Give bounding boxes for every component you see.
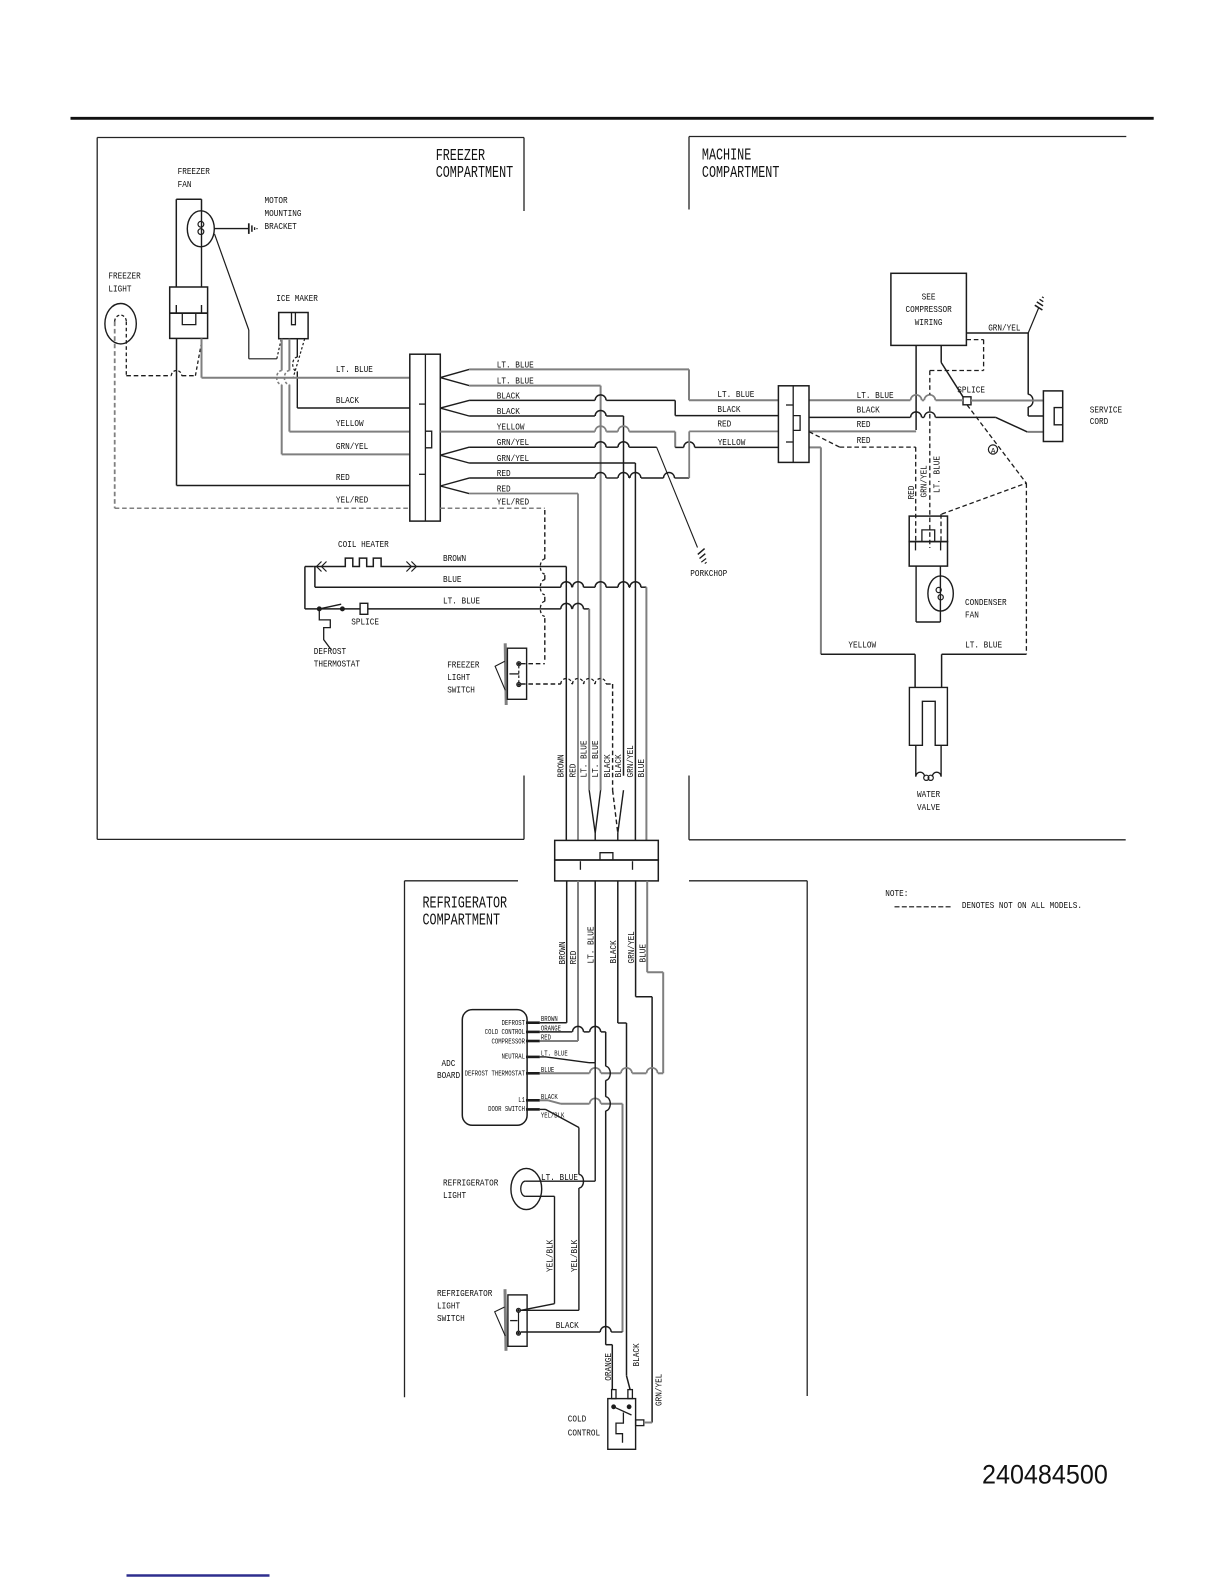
svg-text:YEL/BLK: YEL/BLK xyxy=(569,1239,580,1272)
wire LT. BLUE to water valve xyxy=(942,653,1027,655)
refrigerator light switch pin 2 xyxy=(517,1331,521,1335)
svg-text:LT. BLUE: LT. BLUE xyxy=(336,364,373,375)
svg-text:REFRIGERATOR: REFRIGERATOR xyxy=(443,1178,499,1189)
cold control body xyxy=(608,1399,636,1450)
refrigerator light switch flap xyxy=(495,1307,506,1336)
svg-text:COIL HEATER: COIL HEATER xyxy=(338,539,389,550)
wire to porkchop xyxy=(657,447,698,547)
ADC pin stub xyxy=(526,1056,540,1059)
machine compartment border bottom xyxy=(689,839,1126,841)
wire refrigerator light LT. BLUE xyxy=(526,1180,596,1182)
connector CN3 tick 2 xyxy=(632,861,634,870)
ORANGE hop over BLUE row xyxy=(606,1066,611,1080)
svg-text:THERMOSTAT: THERMOSTAT xyxy=(314,659,361,670)
wire ADC DEFROST brown xyxy=(540,1022,567,1024)
svg-text:DEFROST: DEFROST xyxy=(502,1020,526,1028)
condenser relay block lower xyxy=(909,542,947,567)
connector CN2 notch xyxy=(793,416,800,431)
svg-text:BLACK: BLACK xyxy=(857,404,880,415)
svg-text:COMPARTMENT: COMPARTMENT xyxy=(436,163,514,182)
freezer fan connector pin tick 1 xyxy=(175,305,177,313)
freezer compartment border right upper xyxy=(523,138,525,212)
motor mounting bracket ground symbol xyxy=(248,223,250,234)
svg-text:RED: RED xyxy=(717,419,731,430)
svg-text:BLACK: BLACK xyxy=(717,404,740,415)
ice maker pin 2 wire YELLOW down xyxy=(288,339,290,371)
wire BLACK freezer row xyxy=(297,407,410,409)
ADC pin stub xyxy=(526,1099,540,1102)
trunk BLACK merge xyxy=(613,790,618,833)
cold control contact 2 xyxy=(627,1405,631,1409)
svg-text:COMPARTMENT: COMPARTMENT xyxy=(702,163,780,182)
splice square (defrost) xyxy=(360,603,368,614)
service cord body xyxy=(1043,391,1062,442)
ADC pin stub xyxy=(526,1108,540,1111)
freezer light switch contact tick xyxy=(509,673,519,675)
svg-text:YELLOW: YELLOW xyxy=(718,437,746,448)
ice maker key notch xyxy=(292,313,296,325)
refrigerator light switch pin 1 xyxy=(517,1308,521,1312)
svg-text:BRACKET: BRACKET xyxy=(265,221,298,232)
dashed wire RED from CN2 xyxy=(809,432,840,447)
svg-text:YEL/BLK: YEL/BLK xyxy=(545,1239,556,1272)
svg-text:FAN: FAN xyxy=(178,179,192,190)
wire BROWN trunk upper xyxy=(565,567,567,841)
water valve solenoid xyxy=(916,772,925,776)
svg-text:BOARD: BOARD xyxy=(437,1070,460,1081)
wire BLACK trunk lower xyxy=(617,881,619,1023)
svg-text:DENOTES NOT ON ALL MODELS.: DENOTES NOT ON ALL MODELS. xyxy=(962,900,1082,911)
svg-text:RED: RED xyxy=(497,468,511,479)
svg-text:CONDENSER: CONDENSER xyxy=(965,597,1007,608)
wire compressor RED xyxy=(915,345,917,430)
wire LT. BLUE row 1a xyxy=(469,368,689,370)
svg-text:COMPRESSOR: COMPRESSOR xyxy=(906,304,953,315)
svg-text:COMPRESSOR: COMPRESSOR xyxy=(492,1039,526,1047)
connector CN3 lower body xyxy=(555,860,659,881)
compressor box xyxy=(891,273,967,345)
circled A symbol xyxy=(988,445,997,454)
CN1 split BLACK xyxy=(440,400,469,408)
dashed wire compressor to relay xyxy=(966,339,983,341)
wire LT. BLUE trunk lower xyxy=(594,881,596,1063)
wire RED trunk lower xyxy=(577,881,579,1041)
wire BLACK machine row xyxy=(809,416,910,418)
water valve lead right xyxy=(940,745,942,776)
ORANGE hop over L1 row xyxy=(606,1097,611,1111)
svg-text:BLACK: BLACK xyxy=(336,395,359,406)
svg-text:CORD: CORD xyxy=(1090,416,1109,427)
cold control terminal 2 xyxy=(628,1390,633,1399)
freezer fan connector notch xyxy=(182,313,196,325)
wire compressor to splice xyxy=(940,345,942,362)
freezer fan wire right upper xyxy=(201,199,203,211)
wire BLACK row 2a xyxy=(469,399,595,401)
svg-text:BLACK: BLACK xyxy=(631,1343,642,1366)
connector CN1 divider xyxy=(424,354,426,521)
wire YEL/RED freezer light leg xyxy=(114,322,116,509)
svg-text:LT. BLUE: LT. BLUE xyxy=(541,1172,578,1183)
wire GRN/YEL compressor xyxy=(966,332,1028,334)
freezer fan motor case lead xyxy=(215,228,249,230)
wire ADC L1 black xyxy=(540,1099,548,1101)
svg-text:GRN/YEL: GRN/YEL xyxy=(625,745,636,778)
ADC pin stub xyxy=(526,1040,540,1043)
svg-text:COMPARTMENT: COMPARTMENT xyxy=(423,910,501,929)
wire LT. BLUE machine row xyxy=(809,399,910,401)
wire YEL/BLK#2 lower xyxy=(578,1188,580,1310)
defrost thermostat contact right xyxy=(341,607,345,611)
wire YEL/RED row right xyxy=(440,507,545,509)
cold control terminal 1 xyxy=(612,1390,616,1399)
svg-text:GRN/YEL: GRN/YEL xyxy=(654,1373,665,1406)
defrost thermostat blade xyxy=(319,604,341,609)
wire refrigerator switch BLACK xyxy=(521,1331,600,1333)
freezer compartment border right lower xyxy=(523,776,525,840)
wire YELLOW to water valve xyxy=(821,653,915,655)
svg-text:NEUTRAL: NEUTRAL xyxy=(502,1053,525,1061)
page top rule xyxy=(71,117,1154,120)
svg-text:RED: RED xyxy=(497,484,511,495)
condenser fan left wire xyxy=(915,566,917,622)
connector CN2 body xyxy=(778,386,809,463)
wire ADC COMPRESSOR red xyxy=(540,1040,578,1042)
svg-text:YEL/RED: YEL/RED xyxy=(497,496,530,507)
freezer compartment border left xyxy=(96,138,98,840)
svg-text:LIGHT: LIGHT xyxy=(108,283,131,294)
svg-text:RED: RED xyxy=(568,950,579,964)
defrost thermostat contact left xyxy=(317,607,321,611)
trunk LT. BLUE merge xyxy=(589,790,595,833)
svg-text:L1: L1 xyxy=(518,1097,525,1105)
svg-text:LT. BLUE: LT. BLUE xyxy=(497,375,534,386)
svg-text:RED: RED xyxy=(857,419,871,430)
svg-text:BROWN: BROWN xyxy=(557,941,568,964)
ADC pin stub xyxy=(526,1031,540,1034)
svg-text:MACHINE: MACHINE xyxy=(702,146,751,165)
CN1 split RED xyxy=(440,478,469,486)
CN1 split LT. BLUE xyxy=(440,369,469,377)
splice square (machine) xyxy=(963,397,971,405)
svg-text:COLD: COLD xyxy=(568,1414,587,1425)
svg-text:LT. BLUE: LT. BLUE xyxy=(590,740,601,777)
refrigerator light switch pins link xyxy=(518,1312,520,1331)
refrigerator compartment border left xyxy=(404,881,406,1398)
GRN/YEL hop over LT. BLUE row xyxy=(1028,394,1033,407)
freezer light switch pins link xyxy=(518,666,520,683)
svg-text:LT. BLUE: LT. BLUE xyxy=(857,390,894,401)
svg-text:RED: RED xyxy=(857,435,871,446)
water valve body xyxy=(909,687,947,745)
freezer fan motor coil xyxy=(198,221,204,227)
svg-text:SPLICE: SPLICE xyxy=(351,616,379,627)
porkchop ground symbol xyxy=(698,549,705,555)
svg-text:REFRIGERATOR: REFRIGERATOR xyxy=(437,1288,493,1299)
svg-text:GRN/YEL: GRN/YEL xyxy=(497,453,530,464)
machine compartment border top xyxy=(689,136,1126,138)
wire BLUE row xyxy=(314,567,316,588)
wire motor bracket to ice maker xyxy=(215,234,249,330)
svg-text:GRN/YEL: GRN/YEL xyxy=(919,465,930,498)
ice maker pin 1 wire to bracket xyxy=(277,339,281,359)
svg-text:FREEZER: FREEZER xyxy=(447,659,480,670)
svg-text:ADC: ADC xyxy=(442,1058,456,1069)
coil heater chevron right xyxy=(406,562,416,572)
svg-text:SPLICE: SPLICE xyxy=(957,384,985,395)
refrigerator light switch contact tick xyxy=(510,1320,517,1322)
svg-text:BLACK: BLACK xyxy=(613,754,624,777)
svg-text:DEFROST: DEFROST xyxy=(314,646,347,657)
wire BLACK row 2b xyxy=(469,415,595,417)
svg-text:GRN/YEL: GRN/YEL xyxy=(988,323,1021,334)
freezer compartment border bottom xyxy=(97,838,524,840)
connector CN3 upper body xyxy=(555,840,659,860)
wire BROWN trunk lower xyxy=(566,881,568,1023)
svg-text:MOTOR: MOTOR xyxy=(265,195,288,206)
wire LT. BLUE coil row xyxy=(305,608,561,610)
wire RED row 5a xyxy=(469,477,595,479)
wire ADC DEFROST THERMOSTAT blue xyxy=(540,1072,590,1074)
freezer light switch plate xyxy=(505,643,506,705)
wire GRN/YEL to cold control case xyxy=(644,1422,652,1424)
freezer fan wire top xyxy=(176,198,201,200)
YEL/BLK hop over LT. BLUE xyxy=(579,1174,584,1188)
svg-text:LT. BLUE: LT. BLUE xyxy=(443,596,480,607)
note dash sample xyxy=(895,906,952,908)
wire LT. BLUE trunk A xyxy=(588,609,590,790)
wire YELLOW row xyxy=(440,431,595,433)
wire GRN/YEL row 4b xyxy=(469,462,635,464)
svg-text:NOTE:: NOTE: xyxy=(885,888,908,899)
refrigerator compartment border top-left xyxy=(405,880,519,882)
freezer fan wire left xyxy=(175,199,177,287)
footer blue line xyxy=(127,1574,270,1577)
refrigerator light switch body xyxy=(508,1295,527,1346)
ADC pin stub xyxy=(526,1072,540,1075)
svg-text:VALVE: VALVE xyxy=(917,802,940,813)
ice maker box xyxy=(279,313,308,339)
condenser relay tick 1 xyxy=(915,542,917,551)
water valve lead left xyxy=(915,745,917,776)
freezer light switch pin 1 xyxy=(517,662,521,666)
svg-text:LT. BLUE: LT. BLUE xyxy=(717,389,754,400)
svg-text:LT. BLUE: LT. BLUE xyxy=(585,926,596,963)
wire YEL/BLK#1 xyxy=(526,1195,555,1197)
wire freezer switch pin2 BLACK dashed xyxy=(521,683,561,685)
svg-text:YELLOW: YELLOW xyxy=(497,421,525,432)
wire ORANGE jog xyxy=(606,1344,613,1346)
svg-text:LIGHT: LIGHT xyxy=(437,1301,460,1312)
svg-text:RED: RED xyxy=(906,485,917,499)
service cord notch xyxy=(1054,408,1063,425)
ice maker pin 3 wire BLACK down xyxy=(296,339,298,358)
svg-text:A: A xyxy=(991,448,996,456)
svg-text:YEL/RED: YEL/RED xyxy=(336,495,369,506)
svg-text:CONTROL: CONTROL xyxy=(568,1427,601,1438)
connector CN2 divider xyxy=(792,386,794,463)
svg-text:GRN/YEL: GRN/YEL xyxy=(626,931,637,964)
ice maker pin 4 wire YEL/RED diagonal xyxy=(293,339,305,378)
refrigerator light filament xyxy=(521,1181,526,1196)
connector CN1 tick 1 xyxy=(419,403,425,405)
ADC pin stub xyxy=(526,1021,540,1024)
dashed wire splice to condenser loop xyxy=(967,405,1026,484)
coil heater element BROWN row xyxy=(314,558,567,566)
svg-text:DOOR SWITCH: DOOR SWITCH xyxy=(488,1106,525,1114)
svg-text:SWITCH: SWITCH xyxy=(437,1313,465,1324)
machine compartment border left lower xyxy=(688,776,690,840)
freezer light switch pin 2 xyxy=(517,683,521,687)
svg-text:ORANGE: ORANGE xyxy=(603,1353,614,1381)
connector CN1 notch xyxy=(425,431,431,448)
condenser fan motor lead xyxy=(939,566,941,622)
svg-text:RED: RED xyxy=(567,763,578,777)
svg-text:BLACK: BLACK xyxy=(497,390,520,401)
svg-text:BLUE: BLUE xyxy=(636,759,647,778)
svg-text:YELLOW: YELLOW xyxy=(848,640,876,651)
svg-text:LT. BLUE: LT. BLUE xyxy=(497,359,534,370)
svg-text:RED: RED xyxy=(336,472,350,483)
wire freezer light to lt.blue node xyxy=(126,375,171,377)
CN1 split GRN/YEL xyxy=(440,447,469,455)
svg-text:BROWN: BROWN xyxy=(556,754,567,777)
svg-text:LT. BLUE: LT. BLUE xyxy=(965,640,1002,651)
wire LT. BLUE row 1b xyxy=(469,385,600,387)
chassis ground symbol (machine) xyxy=(1028,308,1039,334)
connector CN1 tick 2 xyxy=(419,473,425,475)
svg-text:SWITCH: SWITCH xyxy=(447,684,475,695)
coil heater left vertical xyxy=(304,567,306,609)
freezer light bulb circle xyxy=(105,304,136,344)
wire RED row 5b xyxy=(469,493,578,495)
connector CN3 key notch xyxy=(600,853,613,860)
wire ADC NEUTRAL lt.blue xyxy=(540,1056,546,1058)
connector CN1 body xyxy=(410,354,441,521)
wire BLUE trunk upper xyxy=(645,587,647,840)
wire RED freezer row xyxy=(176,338,178,485)
freezer compartment border top xyxy=(97,137,524,139)
condenser fan motor coil xyxy=(936,587,941,592)
refrigerator light switch plate xyxy=(505,1289,506,1351)
wire LT. BLUE freezer row xyxy=(201,338,203,377)
svg-text:LIGHT: LIGHT xyxy=(447,672,470,683)
coil heater chevron left xyxy=(317,562,327,572)
freezer light switch flap xyxy=(495,661,505,690)
svg-text:COLD CONTROL: COLD CONTROL xyxy=(485,1029,525,1037)
svg-text:BLACK: BLACK xyxy=(556,1320,579,1331)
wire GRN/YEL freezer row xyxy=(282,453,410,455)
svg-text:LT. BLUE: LT. BLUE xyxy=(579,740,590,777)
machine compartment border left upper xyxy=(688,137,690,210)
svg-text:BLACK: BLACK xyxy=(608,940,619,963)
svg-text:SEE: SEE xyxy=(922,292,936,303)
svg-text:SERVICE: SERVICE xyxy=(1090,405,1123,416)
svg-text:FREEZER: FREEZER xyxy=(178,166,211,177)
cold control case terminal xyxy=(636,1420,644,1426)
cold control blade xyxy=(614,1407,632,1415)
wire freezer switch pin1 YEL/RED xyxy=(521,663,545,665)
wire YELLOW machine row xyxy=(809,446,821,448)
wire GRN/YEL to service cord xyxy=(1027,407,1029,416)
svg-text:GRN/YEL: GRN/YEL xyxy=(497,437,530,448)
wire BLUE trunk lower xyxy=(646,881,648,972)
cold control sensor xyxy=(616,1413,623,1443)
svg-text:240484500: 240484500 xyxy=(982,1459,1108,1489)
svg-text:ICE MAKER: ICE MAKER xyxy=(276,293,318,304)
refrigerator compartment border right xyxy=(806,881,808,1396)
cold control contact 1 xyxy=(612,1405,616,1409)
wire RED machine row xyxy=(809,430,916,432)
freezer fan connector block xyxy=(170,287,208,338)
svg-text:FAN: FAN xyxy=(965,610,979,621)
ice maker pin 1 wire GRN/YEL down xyxy=(281,339,283,371)
svg-text:GRN/YEL: GRN/YEL xyxy=(336,441,369,452)
svg-text:WIRING: WIRING xyxy=(915,317,943,328)
svg-text:BLACK: BLACK xyxy=(602,754,613,777)
refrigerator compartment border top-right xyxy=(689,880,807,882)
freezer fan motor circle xyxy=(187,211,214,247)
svg-text:LT. BLUE: LT. BLUE xyxy=(931,456,942,493)
wire YEL/RED freezer row xyxy=(115,507,410,509)
condenser fan motor circle xyxy=(928,576,953,611)
svg-text:YELLOW: YELLOW xyxy=(336,418,364,429)
svg-text:MOUNTING: MOUNTING xyxy=(265,208,302,219)
wire ADC COLD CONTROL orange xyxy=(540,1031,573,1033)
refrigerator light bulb circle xyxy=(511,1168,542,1209)
connector CN2 tick 2 xyxy=(786,441,793,443)
freezer light switch body xyxy=(507,648,526,699)
freezer fan connector divider xyxy=(170,312,208,314)
freezer light filament xyxy=(115,315,127,321)
freezer fan connector pin tick 2 xyxy=(201,305,203,313)
wire ADC DOOR SWITCH yel/blk xyxy=(540,1108,546,1110)
wire GRN/YEL row 4a xyxy=(469,446,595,448)
wire BLACK into cold control xyxy=(627,1376,631,1390)
svg-text:PORKCHOP: PORKCHOP xyxy=(690,568,727,579)
svg-text:FREEZER: FREEZER xyxy=(108,271,141,282)
freezer fan motor lead xyxy=(201,211,203,287)
svg-text:BLUE: BLUE xyxy=(443,574,462,585)
svg-text:BROWN: BROWN xyxy=(443,553,466,564)
condenser relay key notch xyxy=(922,530,935,542)
wire GRN/YEL trunk lower xyxy=(635,881,637,997)
svg-text:BLACK: BLACK xyxy=(497,406,520,417)
connector CN2 tick 1 xyxy=(786,404,793,406)
dashed wire LT. BLUE to relay xyxy=(942,483,1027,514)
ADC board body xyxy=(462,1010,527,1126)
wire YELLOW freezer row xyxy=(289,431,409,433)
svg-text:BLUE: BLUE xyxy=(637,944,648,963)
connector CN3 tick 1 xyxy=(579,861,581,870)
svg-text:WATER: WATER xyxy=(917,789,940,800)
svg-text:DEFROST THERMOSTAT: DEFROST THERMOSTAT xyxy=(465,1070,526,1078)
svg-text:LIGHT: LIGHT xyxy=(443,1190,466,1201)
condenser relay tick 2 xyxy=(940,542,942,551)
condenser relay block upper xyxy=(909,516,947,542)
defrost thermostat sensor xyxy=(319,611,331,650)
